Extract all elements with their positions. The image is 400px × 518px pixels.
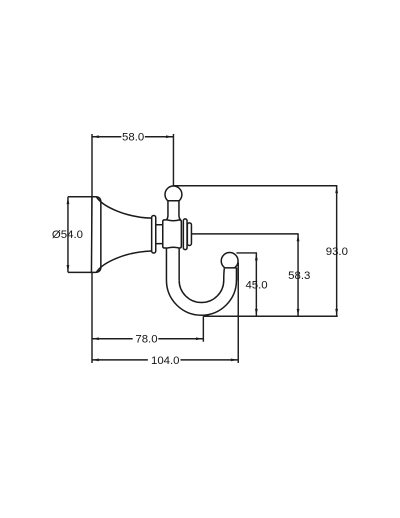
svg-text:45.0: 45.0 <box>245 280 267 292</box>
svg-text:104.0: 104.0 <box>151 355 180 367</box>
svg-text:Ø54.0: Ø54.0 <box>52 229 83 241</box>
svg-text:93.0: 93.0 <box>326 246 348 258</box>
svg-text:78.0: 78.0 <box>135 334 157 346</box>
svg-text:58.3: 58.3 <box>288 270 310 282</box>
svg-text:58.0: 58.0 <box>122 132 144 144</box>
